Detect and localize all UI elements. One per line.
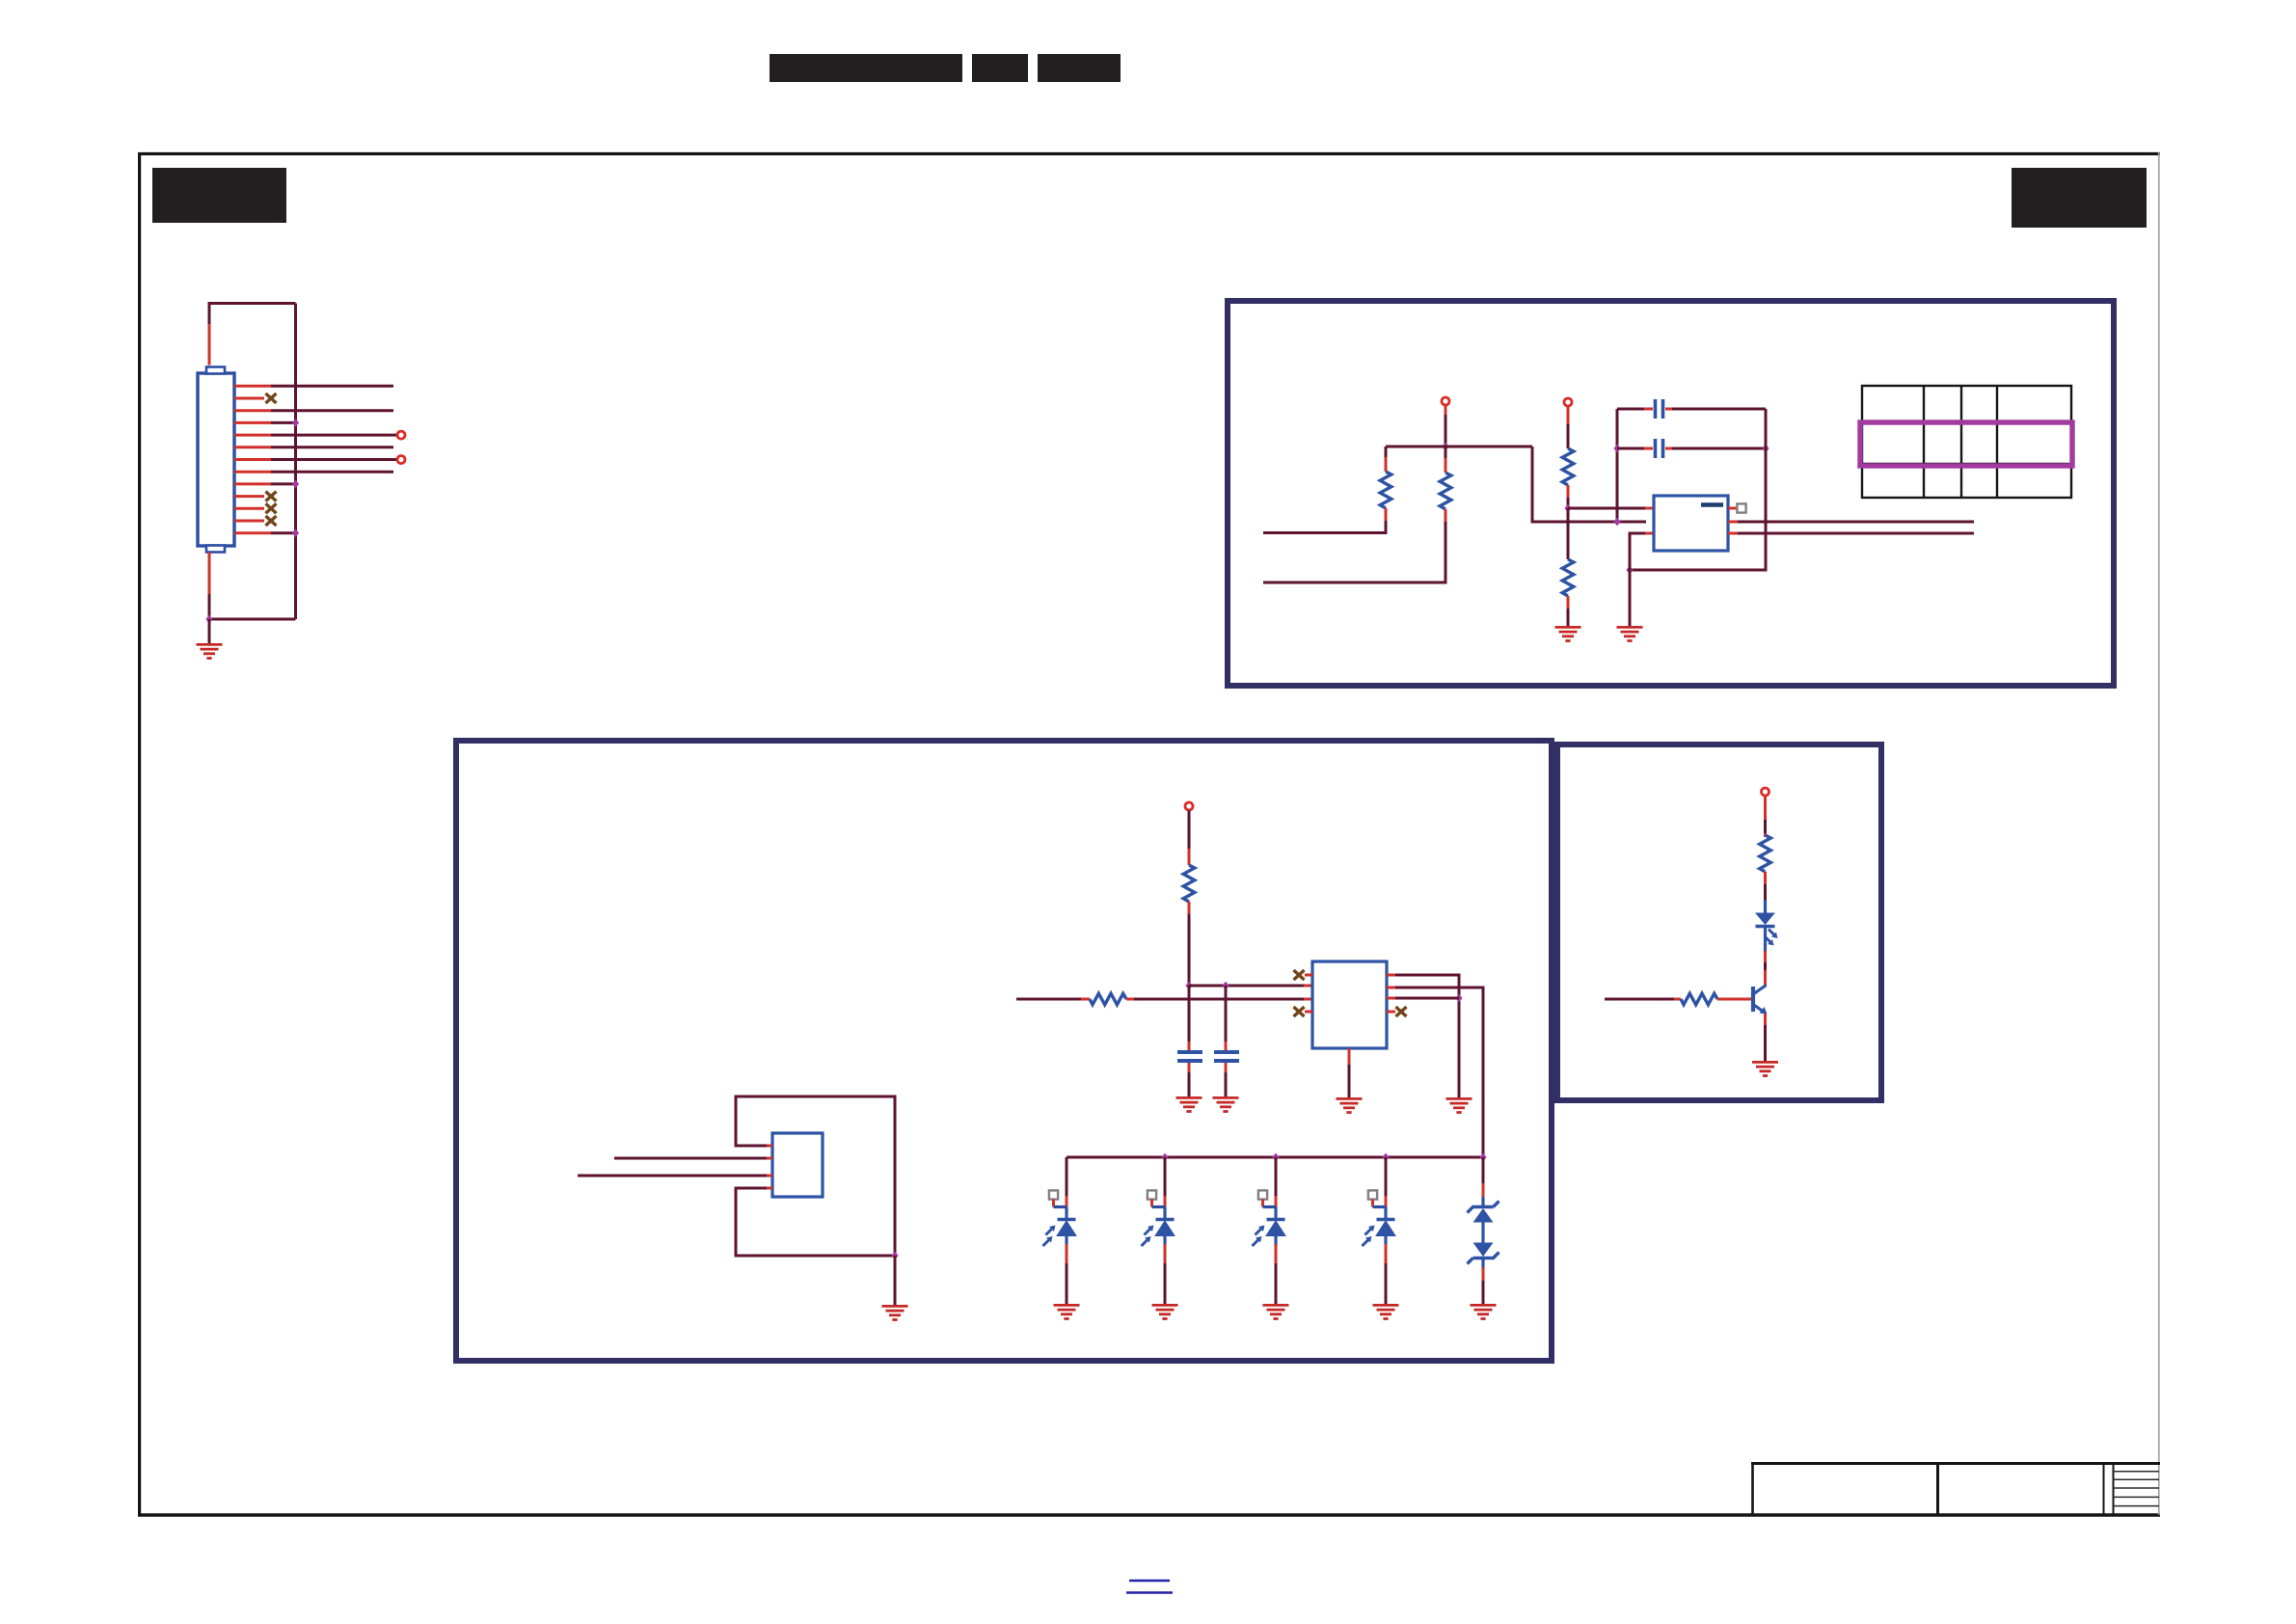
test pad D1 — [1049, 1190, 1067, 1206]
U3 pin 4 loop wire — [736, 1188, 895, 1256]
photodiode D4 column — [1363, 1157, 1396, 1304]
terminal V+ — [1762, 788, 1769, 796]
node bus junction 5 — [1479, 1153, 1486, 1162]
pin 7 wire to terminal — [234, 456, 405, 464]
node A2 — [1564, 504, 1571, 513]
block frame B — [456, 741, 1552, 1361]
node bus junction 3 — [1272, 1153, 1279, 1162]
resistor R6 series input — [1016, 993, 1312, 1005]
pin 4 wire to bus — [234, 419, 299, 427]
footer link underline 1 — [1129, 1580, 1170, 1583]
test pad D3 — [1258, 1190, 1276, 1206]
node A5 — [1762, 445, 1769, 453]
wire U3 to ground — [894, 1256, 897, 1305]
U2 bottom pin wire — [1348, 1048, 1351, 1097]
ground Q1 — [1752, 1062, 1778, 1075]
wire emitter to ground — [1764, 1014, 1767, 1061]
ground D5 — [1471, 1305, 1497, 1318]
connector CN1 top tab — [206, 367, 225, 374]
resistor R1 — [1263, 447, 1391, 533]
title block revision row lines — [2113, 1472, 2159, 1506]
U2 pin 1 no-connect — [1294, 970, 1313, 980]
node B4 — [891, 1252, 898, 1260]
wire cap left rail — [1616, 409, 1619, 522]
wire cap right rail down — [1630, 409, 1766, 570]
U2 right pin 3 wire — [1387, 997, 1459, 1000]
pin 11 wire no-connect — [234, 503, 277, 513]
page frame bottom border — [138, 1513, 2160, 1516]
wire CN1 bottom lead — [208, 553, 211, 597]
connector CN1 body — [198, 373, 234, 546]
block frame A — [1228, 301, 2114, 686]
node junction bottom — [205, 615, 212, 624]
redaction box sheet title right — [2012, 168, 2147, 228]
U2 right pin 4 no-connect — [1387, 1007, 1407, 1016]
test pad D4 — [1368, 1190, 1386, 1206]
pin 9 wire to bus — [234, 480, 299, 489]
redaction box top header 3 — [1038, 54, 1121, 82]
capacitor C3 — [1177, 986, 1202, 1096]
page frame top border — [138, 152, 2160, 155]
terminal V+ — [1185, 802, 1193, 810]
op-amp U1 body — [1654, 496, 1728, 551]
redaction box top header 1 — [770, 54, 962, 82]
terminal V+ middle — [1564, 398, 1572, 406]
terminal V+ left — [1442, 397, 1449, 405]
U1 output wire 1 — [1728, 521, 1974, 524]
ground R4 — [1555, 627, 1581, 640]
IC U2 body — [1312, 961, 1387, 1048]
wire to ground A — [1629, 570, 1632, 626]
pin 3 wire — [234, 409, 393, 412]
wire to ground — [208, 619, 211, 643]
node B1 — [1185, 982, 1192, 990]
resistor R8 base — [1605, 993, 1751, 1005]
LED D6 — [1755, 900, 1778, 953]
resistor R5 pullup — [1183, 811, 1195, 987]
lookup table grid — [1862, 386, 2071, 498]
IR receiver U3 body — [772, 1133, 823, 1197]
ground C4 — [1213, 1097, 1239, 1111]
pin 10 wire no-connect — [234, 492, 277, 501]
ground D2 — [1152, 1305, 1178, 1318]
title block left line — [1751, 1463, 1754, 1514]
block frame C — [1557, 744, 1881, 1100]
wire CN1 top loop — [208, 322, 211, 365]
U1 logo mark — [1701, 502, 1723, 507]
ground D3 — [1263, 1305, 1289, 1318]
wire vertical bus net — [294, 304, 297, 620]
wire node row to IC pin 2 — [1189, 985, 1312, 988]
capacitor C1 — [1617, 399, 1766, 419]
pin 1 wire — [234, 385, 393, 388]
node A1 — [1442, 443, 1448, 451]
wire step to IC pin 2 — [1532, 447, 1646, 522]
pin 6 wire — [234, 446, 393, 448]
resistor R4 — [1562, 508, 1574, 626]
transistor Q1 — [1753, 986, 1768, 1015]
pin 12 wire no-connect — [234, 516, 277, 526]
capacitor C2 — [1617, 439, 1766, 458]
wire to IC pin 1 — [1568, 507, 1654, 510]
resistor R3 — [1562, 407, 1574, 509]
title block divider line — [1936, 1463, 1939, 1514]
photodiode D1 column — [1043, 1157, 1077, 1304]
U2 right pin 2 wire — [1387, 988, 1483, 1157]
pin 13 wire to bus — [234, 528, 299, 537]
U3 pin 2 wire — [614, 1157, 772, 1160]
node A6 — [1626, 566, 1633, 575]
page frame left border — [138, 152, 141, 1516]
title block top line — [1751, 1462, 2160, 1465]
wire CN1 top loop maroon — [209, 304, 296, 325]
ground D1 — [1054, 1305, 1080, 1318]
TVS zener pair D5 — [1468, 1157, 1499, 1304]
footer link underline 2 — [1126, 1591, 1173, 1594]
ground D4 — [1373, 1305, 1399, 1318]
wire from terminal to junction — [1445, 406, 1447, 447]
ground C3 — [1176, 1097, 1202, 1111]
U2 right pin 1 wire — [1387, 975, 1459, 1097]
resistor R7 — [1760, 797, 1771, 903]
ground U3 — [882, 1306, 908, 1319]
pin 5 wire to terminal — [234, 431, 405, 439]
wire CN1 bottom loop — [209, 594, 296, 619]
page frame right border — [2158, 152, 2160, 1515]
table highlight row — [1860, 422, 2072, 466]
U1 pin right test point — [1728, 503, 1746, 512]
title block revision column line 2 — [2113, 1463, 2115, 1514]
ground U2 right — [1446, 1098, 1472, 1112]
node A3 — [1613, 445, 1620, 453]
wire top rail — [1386, 446, 1532, 448]
U2 pin 4 no-connect — [1294, 1007, 1313, 1016]
redaction box sheet title left — [152, 168, 286, 223]
photodiode D2 column — [1142, 1157, 1175, 1304]
title block revision column line 1 — [2103, 1463, 2105, 1514]
wire IC pin 3 feed — [1630, 533, 1654, 570]
wire LED to transistor — [1764, 951, 1767, 986]
U3 pin 3 wire — [578, 1175, 772, 1177]
node B3 — [1455, 994, 1462, 1003]
ground U2 bottom — [1337, 1098, 1363, 1112]
ground connector — [197, 644, 223, 658]
connector CN1 bottom tab — [206, 546, 225, 553]
node bus junction 4 — [1382, 1153, 1389, 1162]
redaction box top header 2 — [972, 54, 1028, 82]
node bus junction 2 — [1161, 1153, 1168, 1162]
LED anode bus wire — [1067, 1156, 1483, 1159]
resistor R2 — [1263, 447, 1451, 582]
test pad D2 — [1148, 1190, 1165, 1206]
U3 pin 1 loop wire — [736, 1096, 895, 1256]
pin 2 wire no-connect — [234, 393, 277, 403]
U1 output wire 2 — [1728, 532, 1974, 535]
node B2 — [1222, 982, 1229, 990]
photodiode D3 column — [1253, 1157, 1286, 1304]
node A4 — [1613, 518, 1620, 527]
capacitor C4 — [1214, 986, 1239, 1096]
ground IC1 — [1617, 627, 1643, 640]
pin 8 wire — [234, 471, 393, 474]
